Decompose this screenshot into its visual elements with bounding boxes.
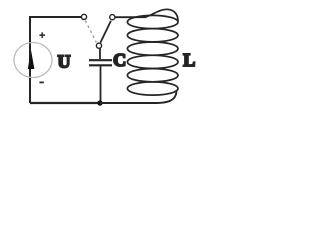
- wire bottom: [30, 102, 100, 104]
- capacitor C: [89, 60, 112, 65]
- inductor L turn 4: [127, 55, 178, 68]
- inductor L turn 6: [127, 82, 178, 95]
- wire switch to capacitor: [99, 48, 101, 59]
- wire top-left: [30, 17, 81, 103]
- svg-text:L: L: [183, 50, 195, 70]
- switch S right terminal: [110, 15, 115, 20]
- wire capacitor to bottom: [100, 66, 102, 103]
- switch S left terminal: [81, 14, 86, 19]
- inductor L turn 1: [127, 15, 178, 28]
- inductor L turn 2: [127, 29, 178, 42]
- svg-text:U: U: [58, 52, 71, 72]
- inductor L turn 5: [127, 69, 178, 82]
- svg-text:C: C: [113, 50, 126, 70]
- switch S open throw (dashed): [85, 21, 96, 43]
- switch S pole terminal: [96, 43, 101, 48]
- inductor L entry turn: [146, 9, 179, 21]
- inductor L turn 3: [127, 42, 178, 55]
- switch S lever: [100, 21, 111, 43]
- inductor L exit turn: [100, 90, 176, 103]
- junction: [97, 100, 102, 105]
- wire switch to inductor: [115, 16, 146, 18]
- current source U: [14, 32, 52, 82]
